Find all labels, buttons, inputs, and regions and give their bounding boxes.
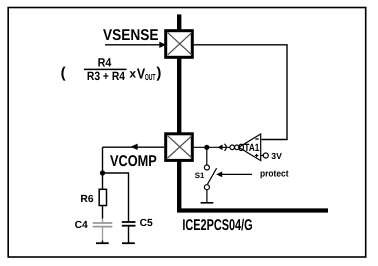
svg-text:VCOMP: VCOMP xyxy=(110,153,157,170)
protect arrow xyxy=(216,172,252,178)
ground below C5 xyxy=(122,242,135,244)
wire: non-inverting input to 3V terminal xyxy=(261,155,264,157)
svg-text:C4: C4 xyxy=(75,220,88,231)
svg-text:R4: R4 xyxy=(98,56,112,70)
svg-text:ICE2PCS04/G: ICE2PCS04/G xyxy=(182,217,252,234)
junction dot at compensation node xyxy=(100,170,105,175)
svg-text:OTA1: OTA1 xyxy=(238,142,260,154)
pin VSENSE (crossed box) xyxy=(166,31,193,58)
wire: thick bus between VSENSE and VCOMP pins xyxy=(177,58,181,135)
svg-text:R3 + R4: R3 + R4 xyxy=(87,69,125,83)
OTA1 bidirectional current arrow xyxy=(218,144,227,151)
OTA1 output circle 2 xyxy=(235,145,240,150)
switch S1 blade xyxy=(208,168,217,184)
junction dot on OTA output wire xyxy=(204,145,209,150)
svg-text:protect: protect xyxy=(260,169,289,179)
wire: S1 to ground xyxy=(206,190,208,203)
wire: down from corner to junction xyxy=(102,147,104,173)
svg-text:3V: 3V xyxy=(271,151,282,161)
svg-text:x: x xyxy=(129,67,136,81)
ground below S1 xyxy=(201,202,214,204)
wire: junction to C5 branch xyxy=(103,173,129,222)
wire: R6 to C4 xyxy=(102,206,104,219)
terminal circle 3V xyxy=(263,153,268,158)
wire: VCOMP to compensation network, with out-arrow xyxy=(103,144,165,150)
formula ( R4/(R3+R4) x VOUT ) xyxy=(61,56,162,84)
svg-text:R6: R6 xyxy=(80,194,93,205)
wire: VCOMP pin to OTA1 output xyxy=(194,146,230,148)
svg-text:C5: C5 xyxy=(140,218,153,229)
svg-text:(: ( xyxy=(61,65,66,82)
wire: thick bus stub above VSENSE pin xyxy=(177,14,181,30)
switch S1 bottom contact xyxy=(204,185,209,190)
svg-text:S1: S1 xyxy=(195,171,205,180)
wire: junction down to switch S1 xyxy=(206,147,208,165)
resistor R6 xyxy=(99,189,106,205)
ground below C4 xyxy=(96,241,109,244)
wire: VSENSE input arrow xyxy=(105,42,166,48)
wire: junction to R6 xyxy=(102,173,104,189)
svg-text:VSENSE: VSENSE xyxy=(103,27,159,44)
pin VCOMP (crossed box) xyxy=(166,134,193,161)
switch S1 top contact xyxy=(204,165,209,170)
op-amp OTA1 triangle xyxy=(239,134,261,161)
wire: thick bus below VCOMP pin down to corner xyxy=(177,160,181,211)
wire: feedback from VSENSE pin to OTA1 inverting input xyxy=(194,45,287,140)
minus sign at inverting input xyxy=(255,138,258,140)
svg-text:): ) xyxy=(156,64,161,81)
capacitor C4 (grey) xyxy=(93,219,113,241)
svg-text:OUT: OUT xyxy=(145,72,156,82)
plus sign at non-inverting input xyxy=(255,154,258,157)
OTA1 output circle 1 xyxy=(230,145,235,150)
wire: thick horizontal IC boundary line xyxy=(177,208,328,212)
capacitor C5 xyxy=(122,222,136,243)
